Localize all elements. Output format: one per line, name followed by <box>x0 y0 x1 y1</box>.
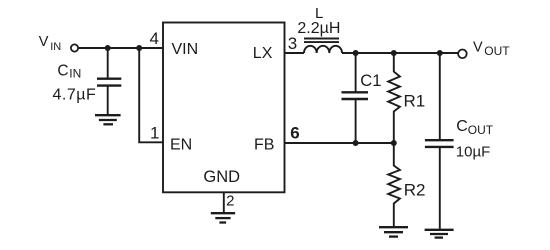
ground U1 <box>211 213 235 222</box>
wire VIN to IC <box>78 47 163 49</box>
wire GND pin <box>223 192 225 213</box>
svg-text:OUT: OUT <box>468 123 494 137</box>
IC U1 body <box>163 23 285 193</box>
ground CIN <box>95 115 121 124</box>
wire COUT top <box>439 53 441 140</box>
svg-text:IN: IN <box>50 41 61 53</box>
capacitor COUT <box>425 140 454 147</box>
svg-text:OUT: OUT <box>484 44 510 58</box>
svg-text:2.2µH: 2.2µH <box>297 20 340 37</box>
svg-text:6: 6 <box>290 124 299 143</box>
junction dot FB C1 <box>353 140 359 146</box>
svg-text:C: C <box>57 63 68 80</box>
resistor R1 <box>388 53 400 143</box>
ground R2 <box>379 227 408 236</box>
svg-text:2: 2 <box>226 192 234 209</box>
svg-text:C1: C1 <box>360 72 381 90</box>
svg-text:V: V <box>473 39 483 55</box>
node VIN terminal <box>71 44 78 51</box>
svg-text:1: 1 <box>150 124 159 143</box>
svg-text:R2: R2 <box>404 181 426 200</box>
svg-text:V: V <box>39 34 49 50</box>
junction dot EN <box>136 45 142 51</box>
svg-text:LX: LX <box>253 45 273 62</box>
inductor L1 core lines <box>304 39 339 43</box>
svg-text:FB: FB <box>254 137 274 154</box>
node VOUT terminal <box>458 50 467 59</box>
svg-text:R1: R1 <box>404 92 426 111</box>
wire FB <box>285 142 394 144</box>
inductor L1 humps <box>304 46 342 53</box>
capacitor CIN <box>97 79 121 86</box>
wire COUT bottom <box>439 147 441 229</box>
wire CIN top <box>107 48 109 78</box>
junction dot FB R1 R2 <box>391 140 397 146</box>
svg-text:IN: IN <box>69 67 81 81</box>
resistor R2 <box>388 143 400 226</box>
wire EN <box>139 48 163 142</box>
capacitor C1 <box>342 92 369 99</box>
svg-text:VIN: VIN <box>172 41 199 58</box>
svg-text:GND: GND <box>203 168 240 186</box>
junction dot CIN <box>105 45 111 51</box>
wire inductor to VOUT <box>342 52 458 54</box>
junction dot R1 <box>391 50 397 56</box>
junction dot COUT <box>437 50 443 56</box>
wire C1 bottom <box>355 99 357 143</box>
svg-text:4: 4 <box>150 29 159 48</box>
wire C1 top <box>355 53 357 92</box>
svg-text:C: C <box>456 118 468 135</box>
svg-text:10µF: 10µF <box>456 144 491 161</box>
junction dot C1 <box>353 50 359 56</box>
svg-text:EN: EN <box>170 137 192 154</box>
wire LX to inductor <box>285 52 305 54</box>
svg-text:4.7µF: 4.7µF <box>53 86 97 103</box>
ground COUT <box>425 230 454 238</box>
wire CIN bottom <box>107 86 109 116</box>
svg-text:3: 3 <box>288 34 297 53</box>
